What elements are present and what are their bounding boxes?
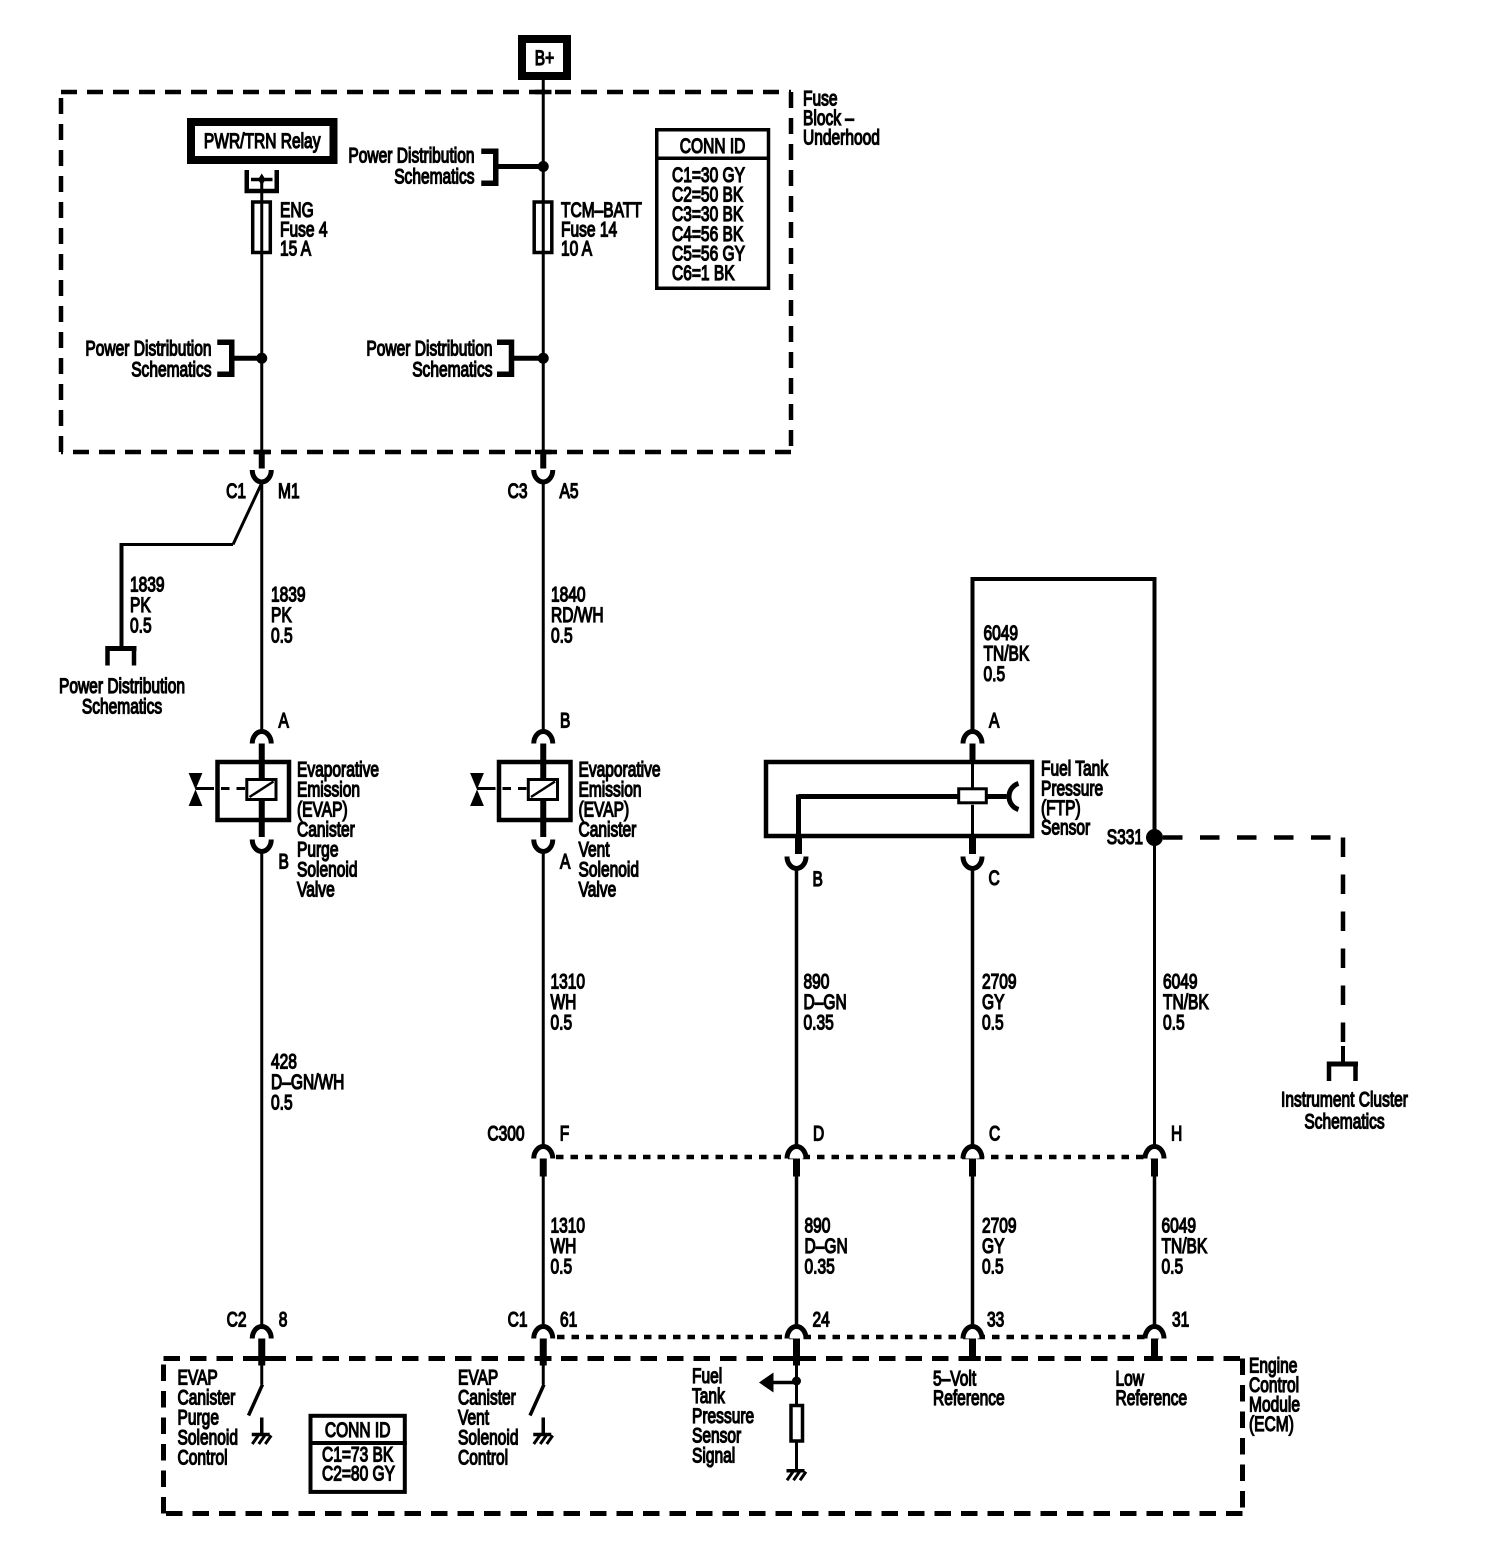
solenoid coil bbox=[247, 780, 276, 800]
connector pin 33 bbox=[963, 1327, 982, 1339]
reference Instrument Cluster Schematics bracket bbox=[1341, 1046, 1345, 1064]
ECM dashed box bbox=[164, 1359, 1243, 1514]
driver switch blade bbox=[249, 1385, 263, 1416]
svg-text:F: F bbox=[560, 1121, 570, 1145]
wire B+ down to TCM fuse column bbox=[542, 80, 545, 453]
svg-text:Control: Control bbox=[458, 1445, 508, 1469]
connector ECM dotted line bbox=[557, 1335, 1160, 1340]
svg-text:C300: C300 bbox=[487, 1121, 524, 1145]
svg-text:A: A bbox=[279, 708, 290, 732]
svg-text:H: H bbox=[1171, 1121, 1182, 1145]
svg-text:15 A: 15 A bbox=[280, 236, 312, 260]
fuse F4 ENG 15A bbox=[253, 202, 271, 253]
svg-text:Schematics: Schematics bbox=[412, 357, 492, 381]
connector table CONN ID (ECM) bbox=[311, 1416, 405, 1492]
svg-text:0.5: 0.5 bbox=[271, 623, 293, 647]
svg-text:0.5: 0.5 bbox=[551, 623, 573, 647]
svg-text:Valve: Valve bbox=[579, 877, 617, 901]
connector table CONN ID (fuse block) bbox=[657, 130, 769, 289]
border dashes at bottom wire crossings bbox=[254, 450, 271, 455]
connector pin A (top) bbox=[252, 732, 271, 744]
svg-text:C2: C2 bbox=[227, 1307, 247, 1331]
wire 1310 WH col2 bbox=[542, 852, 545, 1147]
wire loop FTP sensor A to S331 column bbox=[973, 579, 1155, 840]
connector C300 pin D bbox=[787, 1147, 806, 1159]
svg-text:Control: Control bbox=[178, 1445, 228, 1469]
wire branch diagonal to power distribution bbox=[233, 483, 262, 545]
svg-text:B: B bbox=[560, 708, 570, 732]
sensor FTP body bbox=[766, 762, 1032, 836]
svg-text:8: 8 bbox=[279, 1307, 288, 1331]
connector pin B (FTP) bbox=[795, 836, 802, 854]
svg-text:CONN ID: CONN ID bbox=[325, 1418, 391, 1442]
wire relay to ENG fuse down to connector bbox=[260, 180, 263, 454]
FTP sense element (resistor) bbox=[959, 789, 987, 803]
svg-text:24: 24 bbox=[813, 1307, 830, 1331]
reference Power Distribution Schematics (branch bottom) bbox=[106, 646, 137, 651]
svg-text:C1: C1 bbox=[226, 479, 246, 503]
relay contact bracket symbol bbox=[247, 170, 277, 191]
svg-text:0.5: 0.5 bbox=[982, 1010, 1004, 1034]
svg-text:C3: C3 bbox=[508, 479, 528, 503]
fuse F14 TCM-BATT 10A bbox=[534, 202, 552, 253]
svg-text:M1: M1 bbox=[278, 479, 300, 503]
svg-text:0.5: 0.5 bbox=[1162, 1254, 1184, 1278]
driver switch blade (vent) bbox=[530, 1385, 544, 1416]
connector pin A (FTP sensor) bbox=[963, 732, 982, 744]
B+ battery feed box bbox=[522, 39, 567, 76]
dashed branch to instrument cluster bbox=[1163, 835, 1343, 840]
svg-text:C1: C1 bbox=[508, 1307, 528, 1331]
svg-text:0.35: 0.35 bbox=[804, 1010, 834, 1034]
ground (FTP signal) bbox=[787, 1469, 805, 1473]
connector C300 pin H bbox=[1145, 1147, 1164, 1159]
connector pin A (bottom) bbox=[540, 820, 546, 837]
border dash at B+ wire crossing bbox=[535, 90, 552, 95]
svg-text:Schematics: Schematics bbox=[1304, 1109, 1384, 1133]
svg-text:A: A bbox=[989, 708, 1000, 732]
svg-text:31: 31 bbox=[1172, 1307, 1189, 1331]
svg-text:C2=80 GY: C2=80 GY bbox=[322, 1461, 395, 1485]
wire 428 D-GN/WH col1 bbox=[260, 852, 263, 1327]
svg-text:C: C bbox=[989, 1121, 1000, 1145]
connector C3 pin A5 bbox=[540, 453, 546, 469]
svg-text:C: C bbox=[989, 866, 1000, 890]
EVAP vent solenoid control driver bbox=[542, 1366, 545, 1385]
svg-text:A: A bbox=[560, 849, 571, 873]
svg-text:S331: S331 bbox=[1107, 825, 1143, 849]
valve symbol (bowtie) bbox=[470, 773, 484, 790]
wire 1840 RD/WH bbox=[542, 482, 545, 731]
svg-text:0.5: 0.5 bbox=[271, 1090, 293, 1114]
svg-text:CONN ID: CONN ID bbox=[680, 134, 746, 158]
FTP internal wiring bbox=[799, 794, 959, 799]
ground (vent driver) bbox=[542, 1418, 546, 1435]
svg-text:0.5: 0.5 bbox=[982, 1254, 1004, 1278]
FTP sensor signal input circuit bbox=[795, 1366, 798, 1381]
connector pin C (FTP) bbox=[969, 836, 976, 854]
svg-text:Signal: Signal bbox=[692, 1443, 735, 1467]
EVAP purge solenoid control driver bbox=[260, 1366, 263, 1385]
solenoid valve body bbox=[499, 762, 571, 820]
connector C300 pin F bbox=[534, 1147, 553, 1159]
svg-text:Schematics: Schematics bbox=[82, 694, 162, 718]
connector pin B (bottom) bbox=[259, 820, 265, 837]
junction dot on ENG wire bbox=[256, 353, 267, 364]
ground (purge driver) bbox=[260, 1418, 264, 1435]
FTP wiper arc bbox=[1009, 784, 1018, 810]
svg-text:0.5: 0.5 bbox=[1163, 1010, 1185, 1034]
connector pin 31 bbox=[1145, 1327, 1164, 1339]
connector pin B (top) bbox=[534, 732, 553, 744]
connector C1 pin 61 bbox=[534, 1327, 553, 1339]
svg-text:0.5: 0.5 bbox=[984, 662, 1006, 686]
junction dot bbox=[792, 1377, 801, 1386]
svg-text:Schematics: Schematics bbox=[394, 164, 474, 188]
wire 6049 TN/BK col5 bbox=[1153, 840, 1156, 1146]
svg-text:A5: A5 bbox=[560, 479, 579, 503]
junction dot on TCM wire 2 bbox=[538, 353, 549, 364]
splice S331 bbox=[1146, 829, 1163, 846]
wire 2709 GY col4 bbox=[971, 870, 975, 1147]
svg-text:0.5: 0.5 bbox=[551, 1254, 573, 1278]
svg-text:Sensor: Sensor bbox=[1041, 815, 1090, 839]
svg-text:Reference: Reference bbox=[1116, 1386, 1188, 1410]
pull resistor bbox=[795, 1382, 798, 1406]
svg-text:33: 33 bbox=[987, 1307, 1004, 1331]
svg-text:PWR/TRN Relay: PWR/TRN Relay bbox=[204, 129, 321, 153]
junction dot on TCM wire bbox=[538, 161, 549, 172]
svg-text:61: 61 bbox=[560, 1307, 577, 1331]
svg-text:0.5: 0.5 bbox=[551, 1010, 573, 1034]
svg-text:B+: B+ bbox=[535, 46, 554, 70]
svg-text:Instrument Cluster: Instrument Cluster bbox=[1281, 1087, 1408, 1111]
valve symbol (bowtie) bbox=[189, 773, 203, 790]
relay K1 PWR/TRN Relay box bbox=[191, 122, 334, 160]
solenoid coil bbox=[528, 780, 557, 800]
border dashes at ECM wire crossings bbox=[254, 1356, 271, 1361]
connector C300 pin C bbox=[963, 1147, 982, 1159]
svg-text:B: B bbox=[813, 867, 823, 891]
connector pin 24 bbox=[787, 1327, 806, 1339]
svg-text:D: D bbox=[813, 1121, 824, 1145]
connector C300 dotted line bbox=[556, 1155, 1160, 1160]
svg-text:10 A: 10 A bbox=[561, 236, 593, 260]
svg-text:C6=1 BK: C6=1 BK bbox=[672, 261, 735, 285]
wire 1839 PK main bbox=[260, 482, 263, 731]
svg-text:Reference: Reference bbox=[933, 1386, 1005, 1410]
connector C1 pin M1 bbox=[259, 453, 265, 469]
svg-text:B: B bbox=[279, 849, 289, 873]
svg-text:Valve: Valve bbox=[297, 877, 335, 901]
fuse block underhood dashed box bbox=[61, 92, 791, 452]
wire 890 D-GN col3 bbox=[795, 870, 799, 1147]
svg-text:0.35: 0.35 bbox=[805, 1254, 835, 1278]
dashed actuation link bbox=[206, 787, 247, 790]
solenoid valve body bbox=[218, 762, 290, 820]
connector C2 pin 8 bbox=[252, 1327, 271, 1339]
wires C300 to ECM row bbox=[542, 1177, 545, 1327]
svg-text:0.5: 0.5 bbox=[130, 613, 152, 637]
svg-text:(ECM): (ECM) bbox=[1249, 1412, 1294, 1436]
svg-text:Schematics: Schematics bbox=[131, 357, 211, 381]
dashed actuation link bbox=[487, 787, 528, 790]
svg-text:Underhood: Underhood bbox=[803, 125, 880, 149]
signal arrow bbox=[771, 1381, 795, 1385]
